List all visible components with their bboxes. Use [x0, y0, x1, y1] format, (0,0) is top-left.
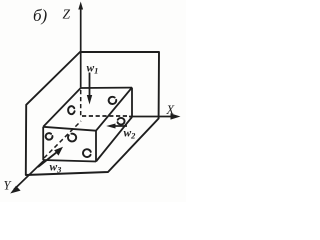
svg-text:w3: w3 [50, 162, 63, 175]
rotation symbol front face middle [68, 134, 76, 142]
force W2 arrow [113, 125, 127, 127]
box front-right edge [95, 131, 97, 162]
box hidden back-left edge (dashed) [80, 90, 82, 116]
rotation symbol front face left [46, 133, 53, 140]
rotation symbol right face [118, 118, 125, 125]
svg-text:w1: w1 [87, 63, 99, 76]
force W3 arrow [38, 152, 57, 167]
outer box silhouette [26, 52, 159, 175]
svg-text:Y: Y [4, 179, 13, 193]
Y axis hidden (dashed through box) [44, 121, 81, 158]
box front-left edge [42, 127, 44, 160]
Z axis [80, 5, 82, 88]
box top-left edge [43, 88, 80, 127]
force W1 arrow [89, 73, 91, 98]
rotation symbol top face left [68, 106, 74, 114]
svg-text:Z: Z [63, 7, 71, 22]
svg-text:X: X [166, 103, 176, 117]
box top-back edge [81, 87, 132, 89]
rotation symbol top face right [109, 97, 117, 104]
Y axis [14, 161, 44, 190]
X axis [129, 116, 173, 118]
svg-text:w2: w2 [124, 128, 137, 141]
box top-right edge [96, 88, 132, 131]
box front-top edge [43, 127, 96, 131]
svg-text:б): б) [33, 6, 48, 25]
box right-bottom edge [96, 117, 132, 162]
box front-bottom edge [43, 160, 96, 162]
X axis hidden (dashed) [82, 115, 129, 117]
rotation symbol front face bottom-right [83, 149, 91, 157]
box right-back edge [131, 88, 133, 118]
